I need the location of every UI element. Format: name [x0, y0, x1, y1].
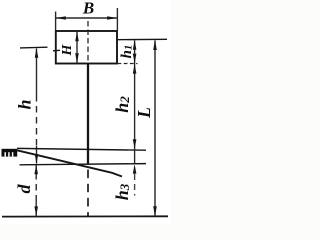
upper level line: [17, 148, 146, 150]
left reference line: [20, 46, 48, 49]
rect bottom extension dashed: [118, 63, 138, 65]
B extension line left: [55, 12, 57, 32]
h1 arrow down: [133, 54, 137, 64]
d arrow down: [34, 206, 38, 216]
B arrow right: [107, 16, 117, 20]
hatched block: [2, 149, 18, 157]
H arrow up: [75, 32, 79, 42]
h dimension line: [36, 49, 38, 96]
h1 h2 h3 chained dimension line: [134, 41, 136, 164]
svg-text:H: H: [60, 43, 75, 56]
d arrow up: [34, 165, 38, 175]
svg-text:d: d: [14, 184, 34, 194]
tick on rect left edge: [53, 49, 60, 52]
block hatch slits: [5, 152, 12, 156]
d dimension line: [35, 165, 37, 173]
h3 dashed tail: [134, 174, 136, 196]
B dimension line: [56, 17, 117, 19]
L arrow up: [153, 40, 157, 50]
label h1: [119, 45, 135, 59]
shaft hidden dashed: [87, 170, 89, 217]
h arrow down: [35, 154, 39, 164]
h arrow up: [35, 48, 39, 58]
right reference line: [118, 38, 168, 40]
h2 arrow up: [133, 64, 137, 74]
lower level line: [20, 164, 147, 165]
H arrow down: [75, 53, 79, 63]
svg-text:h: h: [15, 99, 35, 109]
head rectangle: [56, 31, 117, 64]
B extension line right: [116, 8, 118, 31]
L dimension line: [154, 40, 156, 216]
h2 arrow down: [133, 139, 137, 149]
h1 arrow up: [133, 40, 137, 50]
centerline dashes: [87, 21, 89, 63]
svg-text:L: L: [134, 107, 154, 119]
slanted needle: [17, 150, 122, 176]
svg-text:B: B: [82, 0, 94, 18]
shaft solid: [87, 64, 89, 165]
label h2: [112, 96, 132, 113]
H dimension line: [76, 32, 78, 63]
label h3: [112, 183, 132, 200]
B arrow left: [56, 16, 66, 20]
bottom base line: [2, 215, 168, 217]
L arrow down: [153, 206, 157, 216]
h3 arrow up (below lower line): [133, 164, 137, 174]
